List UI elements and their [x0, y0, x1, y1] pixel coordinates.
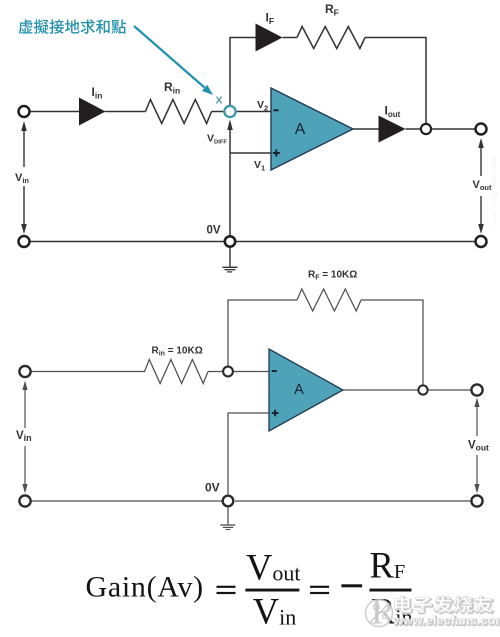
svg-text:A: A — [295, 121, 306, 138]
svg-text:www.elecfans.com: www.elecfans.com — [490, 155, 500, 226]
svg-text:A: A — [294, 382, 304, 398]
svg-text:0V: 0V — [205, 481, 220, 495]
svg-text:X: X — [216, 95, 223, 107]
svg-text:Gain(Av): Gain(Av) — [86, 571, 204, 604]
svg-text:0V: 0V — [207, 225, 221, 237]
svg-text:c: c — [382, 611, 387, 622]
svg-text:www.elecfans.com: www.elecfans.com — [392, 614, 500, 628]
